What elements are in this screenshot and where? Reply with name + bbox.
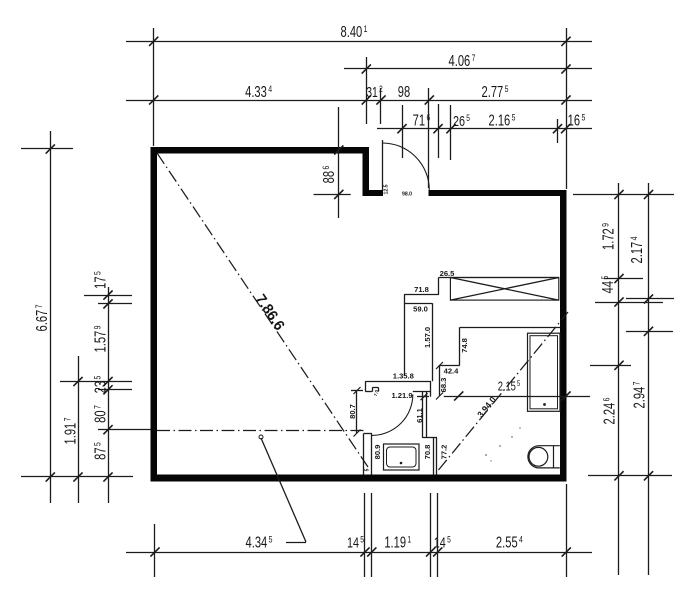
svg-text:61.1: 61.1 (415, 407, 424, 423)
dim 88|6 (notch height) (338, 107, 340, 218)
svg-text:42.4: 42.4 (444, 367, 460, 376)
svg-text:80.9: 80.9 (373, 445, 382, 460)
diagonal dash-dot 7.86.6 (157, 153, 368, 467)
dim 2.15|5 (444, 396, 590, 398)
svg-text:77.2: 77.2 (440, 445, 449, 460)
dim chain top row 1 : 8.40|1 (126, 41, 592, 43)
dim chain top row 2 : 4.06|7 (344, 68, 592, 70)
wardrobe crossed box (439, 277, 559, 279)
svg-text:68.3: 68.3 (439, 378, 448, 393)
wall: top-right segment (429, 190, 567, 196)
step to wardrobe, label 26.5 (438, 278, 440, 295)
bathroom top wall 74.8 (460, 327, 560, 329)
svg-text:1.21.9: 1.21.9 (391, 391, 412, 400)
svg-text:70.8: 70.8 (423, 445, 432, 460)
shower enclosure (528, 333, 561, 411)
right dim line D : 1.72|9, 44|5, 2.24|6 (618, 183, 620, 575)
dim 68.3 (439, 366, 441, 397)
extension lines, bottom dim (154, 524, 156, 577)
svg-text:98.0: 98.0 (402, 192, 412, 198)
interior door arc (bathroom) (372, 395, 413, 436)
entry door leaf (382, 140, 384, 190)
wall: door-left stub (363, 190, 384, 196)
wall: right (560, 190, 567, 482)
wall: notch vertical (363, 147, 370, 196)
entry door swing arc (382, 143, 429, 190)
horizontal dash-dot centerline (157, 430, 364, 432)
shaft / duct walls (404, 295, 406, 376)
leader from 4.34|5 to centerline (286, 542, 306, 544)
diagonal dash-dot 3.94.0 (439, 312, 569, 470)
svg-text:5: 5 (365, 468, 371, 471)
svg-text:26.5: 26.5 (440, 269, 456, 278)
right dim line E : 2.17|4, 2.94|7 (648, 183, 650, 575)
step 42.4 (439, 365, 460, 367)
wall: top (151, 147, 370, 154)
svg-text:71.8: 71.8 (414, 285, 429, 294)
extension lines, top dims (153, 28, 155, 146)
dim chain top row 4 : 71|6, 26|5, 2.16|5, 16|5 (377, 128, 592, 130)
toilet (528, 446, 560, 468)
left dim line A : 6.67|7 (50, 131, 52, 503)
hallway wall with door opening (365, 381, 431, 383)
scan specks (485, 454, 487, 456)
dim 80.7 (356, 391, 358, 434)
left dim line B : 1.91|7 (78, 356, 80, 503)
wall: bottom (151, 475, 567, 482)
dim stub at bathroom wall (417, 396, 429, 398)
svg-text:12.5: 12.5 (384, 184, 390, 194)
svg-text:98: 98 (398, 83, 410, 100)
wall: left (151, 147, 158, 482)
svg-text:59.0: 59.0 (413, 305, 428, 314)
svg-text:1.35.8: 1.35.8 (393, 372, 414, 381)
svg-text:80.7: 80.7 (348, 404, 357, 419)
svg-text:74.8: 74.8 (460, 338, 469, 353)
extension lines, right dims (573, 194, 674, 196)
washbasin (384, 444, 420, 470)
svg-text:1.57.0: 1.57.0 (423, 327, 432, 348)
hallway wall right end cap (430, 381, 432, 396)
left dim line C : 17|5, 1.57|9, 23|5, 80|7, 87|5 (108, 287, 110, 503)
dim chain top row 3 : 4.33|4, 31|2, 98, 2.77|5 (126, 100, 592, 102)
bathroom left wall 61.1 (422, 392, 424, 438)
interior wall 71.8 (404, 294, 439, 296)
dim chain bottom : 4.34|5, 14|5, 1.19|1, 14|5, 2.55|4 (126, 552, 592, 554)
door stub wall 80.9 (363, 434, 365, 475)
